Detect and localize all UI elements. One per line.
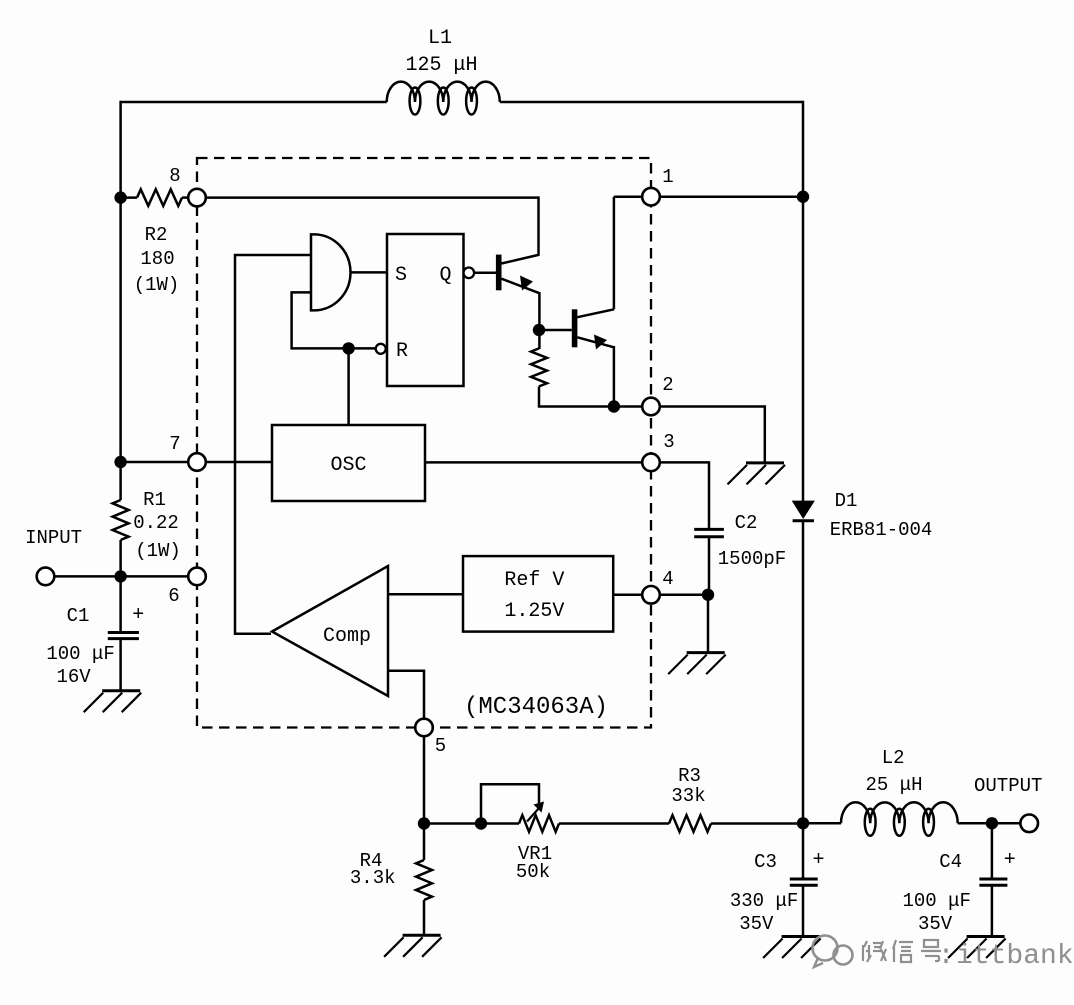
inductor L2: [841, 802, 958, 836]
junction dot input node: [114, 570, 126, 582]
label pin 7: [169, 433, 180, 455]
svg-text:35V: 35V: [739, 913, 774, 935]
wire pin2 to ground: [660, 405, 765, 463]
label pin 3: [663, 431, 674, 453]
wire Q1 emitter down: [538, 292, 541, 349]
wire Q2 base: [539, 329, 572, 332]
junction dot right rail top: [797, 191, 809, 203]
bubble Q output: [464, 268, 475, 279]
wire comp to RefV: [388, 593, 463, 596]
svg-text:+: +: [812, 849, 824, 872]
svg-text:C1: C1: [67, 605, 90, 627]
svg-text:Ref V: Ref V: [504, 569, 564, 592]
svg-text::: :: [938, 941, 955, 972]
wire pin5 down: [423, 736, 426, 824]
junction dot R-input node: [342, 342, 354, 354]
label C3 value: [730, 890, 798, 935]
label C1 value: [46, 643, 114, 688]
svg-text:1.25V: 1.25V: [504, 600, 564, 623]
resistor R3: [669, 815, 711, 832]
svg-text:6: 6: [168, 585, 179, 607]
junction dot pin4 node: [702, 589, 714, 601]
label pin 8: [169, 165, 180, 187]
label R1 value: [133, 489, 181, 562]
ground C2: [668, 653, 726, 675]
svg-text:+: +: [1004, 849, 1016, 872]
label L2 value: [865, 747, 922, 796]
svg-text:125 μH: 125 μH: [405, 54, 477, 77]
wire C4 top: [991, 823, 994, 878]
svg-text:R2: R2: [145, 224, 168, 246]
label C3: [754, 851, 777, 873]
svg-text:L2: L2: [882, 747, 905, 769]
wire rail to L2: [803, 822, 841, 825]
svg-text:Comp: Comp: [323, 625, 371, 648]
wire left rail upper: [119, 101, 122, 500]
wire pin1 to right rail: [660, 195, 803, 198]
wire pin7 stub: [121, 461, 189, 464]
transistor Q2: [572, 309, 614, 349]
wire left rail mid: [119, 540, 122, 632]
label OUTPUT: [974, 775, 1042, 797]
label L1 value: [405, 27, 477, 77]
junction dot pin7 node: [114, 456, 126, 468]
label pin 4: [662, 568, 673, 590]
wire node to ground: [707, 595, 710, 653]
diode D1: [792, 501, 815, 521]
wire R4 bottom: [423, 900, 426, 936]
svg-text:33k: 33k: [671, 785, 705, 807]
label Comp: [323, 625, 371, 648]
label C4 value: [902, 890, 970, 935]
op-amp/AND gate U1a: [311, 234, 351, 310]
ground pin2: [728, 463, 786, 485]
label S input: [395, 264, 407, 287]
svg-text:R1: R1: [143, 489, 166, 511]
wire bottom left: [424, 822, 519, 825]
svg-text:(MC34063A): (MC34063A): [464, 694, 608, 721]
svg-text:3.3k: 3.3k: [350, 867, 396, 889]
svg-text:ERB81-004: ERB81-004: [830, 519, 933, 541]
ground R4: [384, 935, 442, 957]
label C3 plus: [812, 849, 824, 872]
svg-text:1500pF: 1500pF: [718, 548, 786, 570]
oscillator OSC box: [272, 425, 425, 501]
wire right rail lower: [802, 521, 805, 825]
wire right rail upper: [802, 101, 805, 501]
svg-text:+: +: [132, 604, 144, 627]
svg-text:(1W): (1W): [134, 274, 180, 296]
wire RefV to pin4: [613, 594, 642, 597]
label Ref V: [504, 569, 564, 623]
svg-text:INPUT: INPUT: [25, 527, 82, 549]
pin 5: [415, 719, 433, 737]
label D1: [830, 490, 933, 541]
capacitor C1: [108, 633, 139, 639]
pin 2: [642, 398, 660, 416]
svg-text:R3: R3: [678, 765, 701, 787]
bubble R input: [376, 344, 386, 354]
wire R2 to pin8: [182, 196, 189, 199]
svg-text:16V: 16V: [56, 666, 91, 688]
wire VR1 to R3: [559, 822, 669, 825]
label C2: [735, 512, 758, 534]
label pin 6: [168, 585, 179, 607]
wire C4 to ground: [991, 885, 994, 937]
svg-text:0.22: 0.22: [133, 512, 179, 534]
label OSC: [330, 454, 366, 477]
watermark wechat ittbank: [813, 936, 1074, 973]
svg-text:180: 180: [140, 248, 174, 270]
label C2 value: [718, 548, 786, 570]
svg-text:C4: C4: [939, 851, 962, 873]
wire C2 to pin4 node: [708, 537, 711, 595]
wire top rail: [121, 101, 803, 104]
resistor R1: [113, 500, 129, 540]
svg-text:L1: L1: [428, 27, 452, 50]
junction dot C4 node: [986, 817, 998, 829]
svg-text:ittbank: ittbank: [956, 941, 1074, 972]
pin 3: [642, 454, 660, 472]
label R4 value: [350, 850, 396, 889]
svg-text:R: R: [396, 340, 408, 363]
resistor R4: [416, 860, 432, 900]
junction dot emitter node: [608, 400, 620, 412]
wire Q2 collector to pin1: [614, 197, 642, 310]
wire C3 to ground: [802, 885, 805, 937]
wire C1 to ground: [119, 639, 122, 691]
svg-text:4: 4: [662, 568, 673, 590]
label INPUT: [25, 527, 82, 549]
svg-text:100 μF: 100 μF: [902, 890, 970, 912]
label C1: [67, 605, 90, 627]
wire comp to pin5: [388, 671, 424, 719]
resistor internal: [531, 348, 547, 386]
wire L2 to output: [958, 822, 1021, 825]
flip-flop U1b box: [387, 234, 464, 386]
junction dot output node: [797, 817, 809, 829]
wire to pin6: [121, 575, 189, 578]
pin 4: [642, 586, 660, 604]
reference Ref V box: [463, 556, 613, 632]
svg-text:7: 7: [169, 433, 180, 455]
svg-text:(1W): (1W): [135, 540, 181, 562]
ground C1: [84, 691, 142, 713]
label VR1 value: [516, 843, 552, 883]
label (MC34063A): [464, 694, 608, 721]
wire C3 top: [802, 823, 805, 878]
junction dot R4 node: [418, 817, 430, 829]
label pin 5: [435, 735, 446, 757]
label C4: [939, 851, 962, 873]
inductor L1: [387, 82, 500, 115]
capacitor C3: [790, 879, 818, 885]
wire OSC to R node: [347, 348, 350, 425]
capacitor C4: [979, 879, 1007, 885]
svg-text:C3: C3: [754, 851, 777, 873]
svg-text:50k: 50k: [516, 861, 550, 883]
wire AND output to S: [351, 271, 388, 274]
ground C3: [763, 937, 821, 959]
label C4 plus: [1004, 849, 1016, 872]
wire R2 left stub: [121, 196, 137, 199]
wire resistor to bottom: [538, 386, 642, 406]
svg-text:25 μH: 25 μH: [865, 774, 922, 796]
svg-text:OUTPUT: OUTPUT: [974, 775, 1042, 797]
junction dot VR1 node: [475, 817, 487, 829]
pin 7: [188, 453, 206, 471]
wire input to rail: [54, 575, 120, 578]
wire Q bubble to Q1 base: [474, 272, 496, 275]
label pin 1: [662, 166, 673, 188]
label pin 2: [662, 374, 673, 396]
svg-text:C2: C2: [735, 512, 758, 534]
svg-text:1: 1: [662, 166, 673, 188]
label R2 value: [134, 224, 180, 296]
junction dot R2 left: [114, 191, 126, 203]
wire R3 to rail: [711, 822, 803, 825]
transistor Q1: [496, 255, 540, 294]
svg-text:Q: Q: [439, 264, 451, 287]
svg-text:OSC: OSC: [330, 454, 366, 477]
comparator Comp: [272, 566, 388, 696]
terminal INPUT: [37, 568, 55, 586]
label R input: [396, 340, 408, 363]
IC boundary MC34063A dashed box: [197, 158, 651, 728]
pin 1: [642, 188, 660, 206]
svg-text:5: 5: [435, 735, 446, 757]
capacitor C2: [694, 529, 724, 536]
pin 8: [188, 189, 206, 207]
junction dot Q2 base node: [533, 324, 545, 336]
svg-text:330 μF: 330 μF: [730, 890, 798, 912]
svg-text:35V: 35V: [918, 913, 953, 935]
resistor R2: [137, 189, 182, 206]
label Q output: [439, 264, 451, 287]
potentiometer VR1: [481, 784, 559, 832]
wire pin3 to C2: [660, 461, 709, 530]
label R3 value: [671, 765, 705, 807]
svg-text:D1: D1: [835, 490, 858, 512]
svg-text:100 μF: 100 μF: [46, 643, 114, 665]
wire OSC to pin3: [425, 461, 642, 464]
svg-text:8: 8: [169, 165, 180, 187]
wire pin4 to C2 node: [660, 594, 709, 597]
wire R4 top: [423, 824, 426, 861]
svg-text:S: S: [395, 264, 407, 287]
label C1 plus: [132, 604, 144, 627]
wire AND input B loop: [292, 292, 376, 348]
svg-text:2: 2: [662, 374, 673, 396]
svg-text:3: 3: [663, 431, 674, 453]
pin 6: [188, 568, 206, 586]
ground C4: [948, 937, 1006, 959]
wire AND input A from comparator: [235, 255, 311, 634]
wire Q2 emitter down: [613, 346, 616, 408]
wire pin8 to Q1 collector: [206, 196, 539, 254]
terminal OUTPUT: [1020, 815, 1038, 833]
wire pin7 to OSC: [206, 461, 272, 464]
